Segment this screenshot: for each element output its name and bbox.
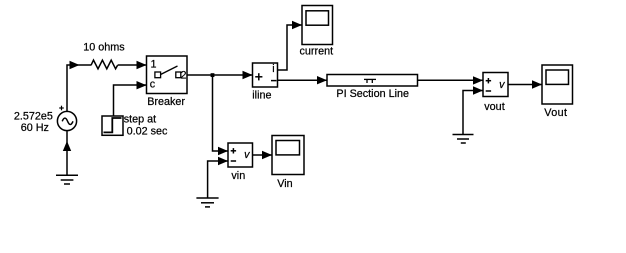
- svg-text:i: i: [272, 63, 274, 75]
- scope current: [302, 6, 333, 45]
- svg-text:Vin: Vin: [277, 178, 292, 190]
- wire source top to resistor: [67, 65, 91, 111]
- wire junction to vin +: [213, 75, 229, 151]
- voltage measurement vin: [228, 143, 253, 167]
- svg-text:iline: iline: [252, 90, 271, 102]
- wire PI to vout +: [418, 79, 484, 81]
- svg-text:10 ohms: 10 ohms: [83, 42, 125, 54]
- voltage measurement vout: [483, 73, 508, 97]
- ground G1: [56, 175, 78, 184]
- wire ground to vin -: [208, 161, 228, 198]
- svg-text:vout: vout: [484, 101, 504, 113]
- svg-text:v: v: [499, 79, 505, 91]
- wire ground to vout -: [463, 91, 483, 135]
- step source block: [102, 116, 123, 135]
- svg-text:c: c: [150, 78, 156, 90]
- svg-text:1: 1: [151, 58, 157, 70]
- ground G2: [196, 198, 218, 207]
- junction node: [211, 73, 215, 77]
- wire vin to Vin scope: [253, 154, 273, 156]
- PI section line block: [327, 75, 418, 87]
- svg-text:current: current: [299, 46, 333, 58]
- wire breaker out to iline: [187, 74, 253, 76]
- svg-text:2: 2: [181, 69, 187, 81]
- svg-text:v: v: [244, 149, 250, 161]
- wire resistor to breaker port 1: [118, 64, 147, 66]
- svg-text:step at: step at: [124, 113, 156, 125]
- wire iline i to current scope: [278, 25, 303, 70]
- wire vout to Vout scope: [508, 84, 542, 86]
- wire iline - to PI section line: [278, 79, 328, 81]
- ground G3: [453, 135, 474, 144]
- AC voltage source Vs: [57, 106, 76, 131]
- scope Vin: [272, 136, 304, 175]
- svg-text:Breaker: Breaker: [147, 96, 185, 108]
- current measurement iline: [253, 63, 278, 87]
- svg-text:60 Hz: 60 Hz: [21, 122, 49, 134]
- svg-text:0.02 sec: 0.02 sec: [127, 125, 168, 137]
- svg-text:PI Section Line: PI Section Line: [336, 88, 409, 100]
- wire step to breaker port c: [114, 85, 147, 116]
- resistor R 10 ohms: [91, 60, 118, 69]
- breaker block: [147, 56, 188, 94]
- wire ground to source bottom: [66, 131, 68, 176]
- svg-text:Vout: Vout: [544, 107, 567, 119]
- svg-text:2.572e5: 2.572e5: [14, 111, 53, 123]
- scope Vout: [542, 65, 573, 104]
- svg-text:vin: vin: [231, 170, 245, 182]
